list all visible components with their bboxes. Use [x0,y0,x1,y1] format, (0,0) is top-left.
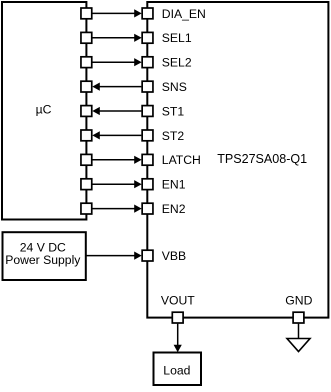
terminal U1 pin VOUT [172,312,183,323]
terminal uC pin 6 [81,130,92,141]
terminal U1 pin GND [293,312,304,323]
wire SEL1 (uC to U1, arrow right) [92,37,140,39]
wire SEL2 (uC to U1, arrow right) [92,61,140,63]
terminal U1 pin SEL2 [142,57,153,68]
svg-text:SEL1: SEL1 [162,31,192,45]
IC block U1 TPS27SA08-Q1 [147,2,328,318]
svg-text:ST1: ST1 [162,104,185,118]
svg-text:ST2: ST2 [162,129,185,143]
svg-text:EN1: EN1 [162,178,186,192]
terminal uC pin 8 [81,179,92,190]
terminal uC pin 2 [81,32,92,43]
svg-text:TPS27SA08-Q1: TPS27SA08-Q1 [217,152,307,166]
microcontroller block uC [2,2,86,220]
wire SNS (U1 to uC, arrow left) [94,86,141,88]
terminal uC pin 3 [81,57,92,68]
svg-text:Load: Load [163,364,190,378]
terminal U1 pin EN2 [142,203,153,214]
terminal uC pin 7 [81,154,92,165]
wire LATCH (uC to U1, arrow right) [92,159,140,161]
power supply block 24 V DC [3,232,86,280]
wire EN2 (uC to U1, arrow right) [92,208,140,210]
svg-text:DIA_EN: DIA_EN [162,7,206,21]
wire EN1 (uC to U1, arrow right) [92,183,140,185]
wire VOUT to Load (arrow down) [177,324,179,351]
wire GND to ground symbol [298,324,300,339]
svg-text:GND: GND [285,294,312,308]
terminal uC pin 4 [81,81,92,92]
svg-text:LATCH: LATCH [162,153,201,167]
svg-text:EN2: EN2 [162,202,186,216]
svg-text:Power Supply: Power Supply [5,253,81,267]
load block [154,353,202,386]
svg-text:VOUT: VOUT [161,294,195,308]
terminal U1 pin ST2 [142,130,153,141]
terminal U1 pin SNS [142,81,153,92]
wire ST2 (U1 to uC, arrow left) [94,134,141,136]
terminal U1 pin ST1 [142,106,153,117]
terminal uC pin 9 [81,203,92,214]
svg-text:µC: µC [36,103,52,117]
wire ST1 (U1 to uC, arrow left) [94,110,141,112]
ground symbol [287,339,310,352]
terminal U1 pin EN1 [142,179,153,190]
terminal U1 pin VBB [142,250,153,261]
svg-text:VBB: VBB [162,249,186,263]
wire VBB (supply to U1, arrow right) [86,255,140,257]
terminal uC pin 1 [81,8,92,19]
wire DIA_EN (uC to U1, arrow right) [92,12,140,14]
terminal U1 pin LATCH [142,154,153,165]
terminal U1 pin SEL1 [142,32,153,43]
svg-text:SNS: SNS [162,80,187,94]
svg-text:SEL2: SEL2 [162,56,192,70]
terminal U1 pin DIA_EN [142,8,153,19]
terminal uC pin 5 [81,106,92,117]
